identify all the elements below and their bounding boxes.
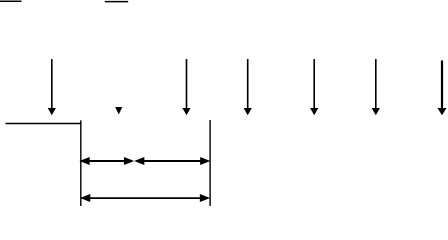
dimension arrow bottom (row 2) xyxy=(82,195,209,201)
load arrow 6 xyxy=(438,61,447,116)
dimension arrow left (row 1) xyxy=(81,158,133,164)
dimension arrow right (row 1) xyxy=(136,158,209,164)
step top line xyxy=(6,123,82,125)
small arrowhead (no shaft) xyxy=(115,107,122,115)
top middle line segment xyxy=(105,1,128,3)
load arrow 1 xyxy=(48,59,56,115)
load arrow 4 xyxy=(310,59,318,115)
left extension line xyxy=(80,120,82,206)
right extension line xyxy=(209,120,211,206)
load arrow 2 xyxy=(182,59,190,115)
top-left line segment xyxy=(0,0,22,2)
load arrow 5 xyxy=(372,59,380,115)
load arrow 3 xyxy=(244,59,252,115)
